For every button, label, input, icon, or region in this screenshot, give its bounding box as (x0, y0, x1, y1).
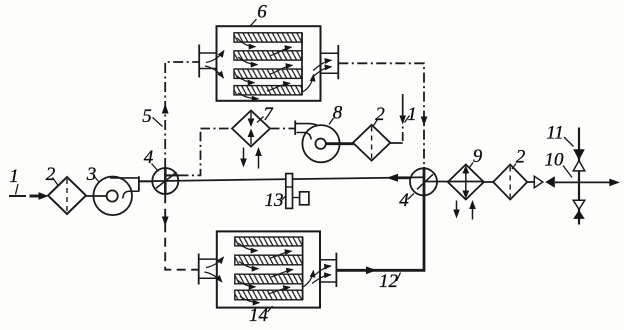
svg-text:9: 9 (473, 146, 483, 167)
fan 3 (centrifugal fan) (93, 176, 139, 215)
left-pointing flow arrow on main line (387, 174, 410, 182)
node 1 recirculation riser (right) (399, 94, 406, 143)
svg-text:7: 7 (263, 104, 274, 125)
svg-text:10: 10 (545, 150, 565, 171)
heat exchanger 14 (bottom box) (217, 231, 320, 307)
filter 2 (left diamond) (48, 177, 86, 214)
label 5 leader tick (153, 118, 163, 127)
damper 13 on main line (286, 174, 309, 209)
svg-text:2: 2 (375, 104, 385, 125)
svg-text:14: 14 (249, 305, 269, 326)
label 1 leader tick (16, 184, 19, 195)
wire outlet 10 with arrow (555, 179, 620, 187)
heat/moisture exchanger 9 (diamond with double arrow) (448, 165, 484, 200)
mixer 4 (left circle) (152, 168, 179, 194)
wire branch 5 (dash-dot up from mixer 4 to heat exchanger 6) (165, 62, 199, 168)
label 12 leader tick (397, 273, 401, 282)
svg-text:4: 4 (144, 147, 154, 168)
label 7 leader tick (257, 117, 264, 123)
main recirculation line (left circle to right circle) (152, 177, 423, 181)
box 14 left inlet duct (199, 254, 217, 285)
wire box6 outlet dash-dot to right down to mixer 4 right (338, 63, 424, 166)
svg-text:11: 11 (546, 123, 564, 144)
flow arrow up on branch 5 (162, 104, 169, 114)
label 8 leader tick (329, 118, 334, 125)
svg-text:12: 12 (379, 271, 399, 292)
box 14 internal flow arrows (237, 243, 314, 303)
wire filter2 to fan3 (86, 195, 108, 197)
mixer 4 (right circle) (410, 167, 437, 196)
label 1 right leader tick (405, 116, 410, 123)
humidifier 7 water arrows (240, 147, 262, 169)
wire humidifier 7 to fan 8 (dash-dot) (270, 128, 295, 130)
svg-text:1: 1 (9, 166, 19, 187)
box 6 inlet flow arrows (205, 51, 224, 79)
svg-text:4: 4 (399, 190, 409, 211)
label 9 leader tick (470, 163, 474, 168)
wire 12 (box 14 outlet up to mixer 4R, thick) (336, 195, 424, 270)
label 4 leader tick (152, 164, 159, 172)
svg-text:2: 2 (46, 164, 56, 185)
svg-text:3: 3 (86, 164, 97, 185)
wire filter 2 middle to riser (390, 142, 402, 144)
wire branch to humidifier 7 (dash-dot from mixer 4) (179, 129, 232, 176)
box 6 internal flow arrows (236, 38, 314, 99)
label 2 middle leader tick (374, 120, 378, 126)
svg-text:13: 13 (265, 190, 284, 211)
box 14 outlet flow arrows (312, 266, 331, 284)
filter 2 (right diamond) (493, 165, 527, 200)
svg-text:1: 1 (407, 104, 417, 125)
label 11 leader tick (564, 137, 574, 147)
label 6 leader tick (251, 19, 257, 26)
label 2 leader tick (53, 178, 59, 187)
valve lower on line 11 (573, 200, 585, 219)
svg-text:6: 6 (257, 2, 267, 23)
label 13 leader tick (281, 196, 286, 202)
flow arrow down on right dash-dot drop (421, 117, 428, 127)
label 2 right leader tick (512, 164, 516, 170)
node 1 air inlet line (left) (9, 195, 26, 197)
wire exchanger 9 to filter 2 right (484, 181, 494, 183)
valve upper on line 11 (573, 149, 585, 171)
bypass line 11 (vertical) (578, 128, 580, 225)
label 10 leader tick (563, 166, 572, 178)
wire mixer 4L down to box 14 (dashed) (165, 194, 199, 270)
svg-text:8: 8 (333, 103, 343, 124)
inlet arrow into filter 2 (30, 192, 49, 200)
flow arrow down on dashed drop (162, 217, 169, 227)
label 4 right leader tick (408, 194, 415, 200)
svg-text:2: 2 (516, 147, 526, 168)
box 6 outlet flow arrows (312, 60, 332, 77)
label 14 leader tick (268, 306, 273, 312)
wire filter 2R to check valve (527, 181, 534, 183)
wire fan 8 to filter 2 (middle) thick (326, 142, 354, 145)
filter 2 (middle diamond) (353, 125, 390, 161)
label 3 leader tick (94, 176, 100, 183)
box 6 left inlet duct (199, 45, 216, 78)
fan 8 (centrifugal fan, outlet left) (295, 121, 339, 163)
svg-text:5: 5 (142, 106, 152, 127)
wire fan3 outlet to mixer 4 left (139, 180, 153, 182)
check valve pair on outlet 10 (534, 176, 555, 187)
exchanger 9 drain/supply arrows (453, 200, 476, 220)
heat exchanger 6 (top box) (217, 26, 321, 101)
flow arrow right on wire 12 (366, 266, 377, 274)
box 14 right outlet duct (320, 253, 336, 287)
wire mixer 4R to heat recovery 9 (437, 181, 484, 183)
humidifier 7 (diamond with spray arrows) (232, 111, 270, 147)
box 14 inlet flow arrows (205, 257, 224, 282)
box 6 right outlet duct (321, 45, 339, 79)
